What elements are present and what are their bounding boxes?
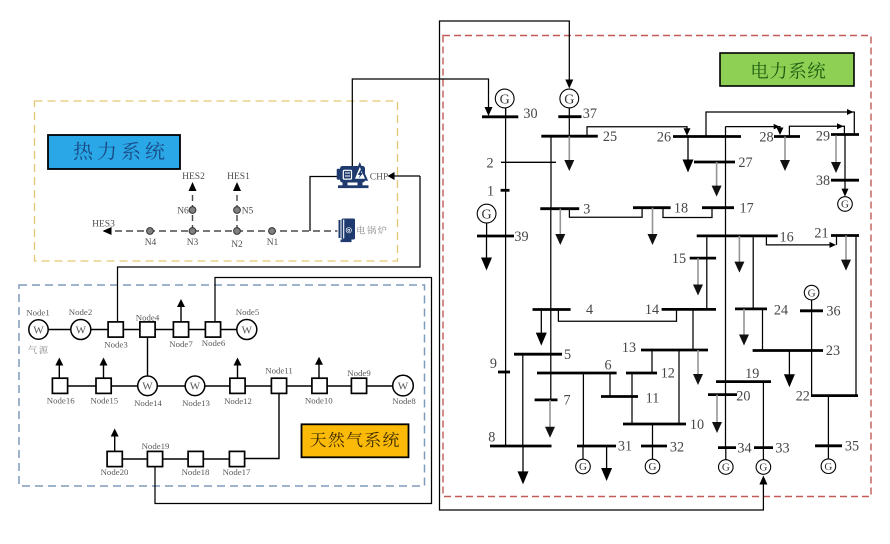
gas system title box 天然气系统	[302, 424, 409, 457]
svg-text:Node13: Node13	[182, 398, 210, 408]
gas pipe row2	[68, 385, 393, 387]
generator G33	[756, 448, 771, 475]
line 16-24	[752, 236, 754, 309]
generator G39	[477, 204, 496, 236]
thermal system dashed boundary box	[35, 101, 398, 261]
wire CHP electric output to bus30 area	[352, 79, 488, 166]
svg-text:CHP: CHP	[370, 173, 388, 183]
svg-text:13: 13	[622, 340, 636, 356]
bus 29	[831, 133, 859, 136]
Node7 arrow	[177, 299, 185, 322]
bus 23	[753, 349, 823, 352]
svg-text:Node17: Node17	[223, 467, 251, 477]
bus 8	[490, 445, 552, 448]
svg-text:34: 34	[737, 441, 751, 457]
svg-text:G: G	[759, 462, 767, 474]
svg-text:W: W	[76, 324, 87, 336]
gas feed arrow into CHP	[388, 172, 421, 180]
bus 15	[690, 257, 716, 260]
svg-text:Node10: Node10	[305, 396, 333, 406]
line 5-8	[522, 354, 524, 446]
svg-text:Node20: Node20	[101, 467, 129, 477]
heat node N3	[189, 228, 196, 235]
gas system dashed boundary box	[19, 285, 425, 486]
gas node Node6	[205, 322, 220, 337]
load arrow bus 4	[536, 310, 547, 346]
bus 26	[673, 135, 741, 138]
svg-text:30: 30	[523, 106, 537, 122]
bus 16	[697, 234, 778, 237]
bus 12	[626, 372, 657, 375]
load arrow bus 27	[712, 162, 722, 197]
wire gas Node3 to CHP (fuel supply)	[118, 176, 421, 322]
line 13-12	[651, 350, 653, 373]
svg-text:10: 10	[690, 417, 704, 433]
gas source Node8 (W)	[393, 375, 414, 396]
line 24-23	[762, 309, 764, 351]
load arrow bus 21	[841, 236, 851, 271]
svg-text:23: 23	[826, 343, 840, 359]
gas pipe Node17-Node11	[245, 393, 279, 458]
bus 4	[533, 308, 571, 311]
line chain 25-2-3	[550, 136, 552, 209]
svg-text:Node8: Node8	[392, 396, 416, 406]
svg-text:N2: N2	[231, 240, 243, 250]
bus 24	[735, 307, 767, 310]
wire fuel loop to G37 and G33 (left/top route)	[440, 21, 764, 510]
load arrow bus 13	[693, 350, 703, 385]
svg-text:N1: N1	[267, 238, 279, 248]
Node15 arrow	[100, 358, 108, 379]
svg-text:G: G	[808, 287, 816, 299]
line 3-18	[569, 208, 642, 218]
line 6-31	[582, 373, 584, 446]
line 26-28 with flow arrow	[726, 124, 784, 135]
gas node Node20	[107, 451, 122, 466]
heat network main dashed pipe N4-N3-N2-N1-boiler	[104, 230, 338, 232]
svg-text:20: 20	[736, 389, 750, 405]
svg-text:31: 31	[618, 439, 632, 455]
line 19-33	[762, 382, 764, 448]
svg-text:Node6: Node6	[202, 338, 226, 348]
svg-text:12: 12	[661, 366, 675, 382]
CHP unit icon	[337, 165, 369, 189]
svg-text:5: 5	[564, 347, 571, 363]
svg-text:HES3: HES3	[92, 220, 115, 230]
svg-text:G: G	[500, 92, 510, 107]
svg-text:2: 2	[486, 155, 493, 171]
svg-text:Node3: Node3	[104, 340, 128, 350]
svg-text:HES2: HES2	[182, 172, 205, 182]
svg-text:27: 27	[738, 155, 752, 171]
bus 7	[535, 398, 558, 401]
gas node Node4	[140, 322, 155, 337]
line 22-35	[827, 396, 829, 446]
line 18-17	[663, 208, 712, 218]
svg-text:15: 15	[672, 251, 686, 267]
svg-text:Node1: Node1	[26, 308, 49, 318]
svg-text:G: G	[841, 199, 849, 211]
gas source Node13 (W)	[185, 376, 205, 396]
svg-text:4: 4	[586, 302, 593, 318]
svg-text:Node18: Node18	[182, 467, 210, 477]
dashed riser N3 to HES2	[192, 190, 194, 231]
load arrow bus 25	[564, 136, 574, 171]
generator G37	[560, 89, 579, 117]
svg-text:8: 8	[488, 430, 495, 446]
gas node Node17	[229, 451, 244, 466]
svg-text:G: G	[482, 207, 492, 222]
svg-text:1: 1	[487, 183, 494, 199]
svg-text:19: 19	[745, 366, 759, 382]
svg-text:28: 28	[759, 130, 773, 146]
heat node N2	[234, 228, 241, 235]
wire CHP heat output to heat pipe	[310, 177, 338, 232]
svg-text:7: 7	[563, 393, 570, 409]
gas source Node2 (W)	[71, 320, 91, 340]
gas node Node12	[230, 378, 245, 393]
line 37-25	[568, 117, 570, 136]
gas source Node14 (W)	[138, 376, 158, 396]
svg-text:G: G	[579, 461, 587, 473]
bus 18	[633, 206, 671, 209]
bus 33	[754, 446, 773, 449]
load arrow bus 26	[683, 137, 694, 173]
svg-text:G: G	[722, 462, 730, 474]
load arrow bus 8	[518, 446, 529, 484]
gas pipe row1	[48, 329, 237, 331]
bus 20	[708, 393, 737, 396]
svg-text:G: G	[649, 461, 657, 473]
HES1 arrow	[233, 182, 241, 191]
heat node N6	[189, 207, 196, 214]
bus 28	[774, 135, 800, 138]
generator G31	[576, 446, 591, 474]
bus 11	[601, 395, 638, 398]
svg-text:HES1: HES1	[227, 172, 250, 182]
svg-text:G: G	[824, 461, 832, 473]
gas source Node1 (W)	[29, 320, 48, 339]
bus 25	[541, 135, 598, 138]
svg-text:16: 16	[780, 230, 794, 246]
bus 31	[577, 445, 616, 448]
svg-text:33: 33	[775, 441, 789, 457]
gas source label 气源	[28, 346, 47, 355]
load arrow bus 31	[601, 446, 612, 481]
svg-text:25: 25	[603, 129, 617, 145]
svg-text:37: 37	[583, 106, 597, 122]
svg-text:Node9: Node9	[347, 368, 371, 378]
electric boiler icon	[339, 219, 356, 243]
svg-text:26: 26	[657, 129, 671, 145]
heat node N1	[269, 228, 276, 235]
generator G35	[821, 446, 836, 474]
svg-text:Node5: Node5	[236, 307, 260, 317]
arrow into G33	[759, 476, 767, 485]
svg-text:32: 32	[670, 440, 684, 456]
gas node Node15	[96, 378, 111, 393]
bus 35	[815, 444, 842, 447]
line 13-10	[678, 350, 680, 424]
line chain 30-2-1-39-9-8	[505, 108, 507, 446]
svg-text:Node4: Node4	[136, 313, 160, 323]
bus 32	[641, 445, 667, 448]
Node20 arrow	[111, 429, 119, 452]
svg-text:Node19: Node19	[142, 441, 170, 451]
gas node Node10	[312, 378, 327, 393]
load arrow bus 39	[481, 236, 492, 271]
line 4-14	[558, 310, 676, 322]
svg-text:9: 9	[490, 356, 497, 372]
bus 3	[540, 207, 579, 210]
svg-text:29: 29	[816, 129, 830, 145]
bus 17	[702, 206, 734, 209]
load arrow bus 16	[734, 236, 744, 273]
load arrow bus 18	[648, 208, 658, 245]
bus 36	[800, 309, 823, 312]
svg-text:18: 18	[674, 201, 688, 217]
bus 19	[716, 380, 771, 383]
load arrow bus 28	[780, 137, 790, 172]
svg-text:Node14: Node14	[134, 398, 162, 408]
svg-text:Node11: Node11	[265, 366, 293, 376]
wire gas Node6 to Node19 outer pipe	[155, 278, 432, 504]
svg-text:Node16: Node16	[47, 396, 75, 406]
bus 14	[662, 308, 716, 311]
load arrow bus 15	[693, 258, 703, 295]
bus 5	[514, 353, 562, 356]
svg-text:35: 35	[845, 439, 859, 455]
line 15-14	[706, 258, 708, 309]
svg-text:21: 21	[814, 226, 828, 242]
bus 30	[482, 115, 518, 118]
svg-text:W: W	[33, 324, 44, 336]
generator G32	[645, 446, 660, 474]
arrow into G37	[565, 80, 573, 89]
Node16 arrow	[55, 358, 63, 379]
line chain 3-4-5-6-7	[550, 209, 552, 400]
generator G38	[838, 197, 853, 212]
line chain 17-16-19-20-34	[725, 208, 727, 448]
generator G34	[719, 448, 734, 475]
dashed riser N2 to HES1	[236, 190, 238, 231]
svg-text:W: W	[242, 324, 253, 336]
load arrow bus 23	[784, 351, 795, 388]
bus 1	[501, 189, 510, 192]
gas node Node7	[173, 322, 188, 337]
svg-text:W: W	[398, 381, 409, 393]
load arrow bus 24	[739, 309, 749, 346]
gas node Node16	[52, 378, 67, 393]
gas pipe Node4-Node14	[147, 337, 149, 376]
line 21-22	[855, 236, 857, 396]
svg-text:22: 22	[796, 389, 810, 405]
bus 9	[498, 371, 510, 374]
svg-text:Node12: Node12	[224, 396, 252, 406]
svg-text:N3: N3	[187, 238, 199, 248]
svg-text:36: 36	[826, 304, 840, 320]
gas source Node5 (W)	[237, 320, 257, 340]
load arrow bus 7	[545, 400, 555, 438]
svg-text:11: 11	[646, 391, 660, 407]
bus 34	[718, 446, 736, 449]
bus 39	[477, 235, 514, 238]
load arrow bus 3	[555, 209, 565, 245]
line chain 26-27-17	[725, 127, 727, 208]
generator G36	[804, 285, 819, 300]
bus 13	[641, 349, 708, 352]
bus 37	[558, 115, 581, 118]
svg-text:3: 3	[583, 202, 590, 218]
bus 27	[694, 161, 735, 164]
svg-text:38: 38	[816, 173, 830, 189]
line 25-26 with flow arrow	[587, 127, 691, 136]
generator G30	[495, 89, 514, 117]
HES3 arrow (left end of heat pipe)	[103, 227, 112, 235]
electric boiler label 电锅炉	[357, 226, 386, 235]
bus 22	[811, 394, 858, 397]
svg-text:N6: N6	[177, 207, 189, 217]
svg-text:14: 14	[645, 302, 659, 318]
line 26-29 with flow arrow	[706, 109, 854, 137]
line 6-11	[609, 373, 611, 397]
line 28-29 with flow arrow	[789, 123, 844, 136]
HES2 arrow	[189, 182, 197, 191]
svg-text:6: 6	[604, 358, 611, 374]
thermal system title box 热力系统	[48, 135, 180, 169]
bus 2	[501, 161, 556, 163]
svg-text:Node15: Node15	[90, 396, 118, 406]
svg-text:W: W	[142, 381, 153, 393]
svg-text:N4: N4	[145, 238, 157, 248]
Node10 arrow	[315, 357, 323, 378]
gas node Node3	[108, 322, 123, 337]
Node12 arrow	[234, 358, 242, 379]
gas node Node18	[188, 451, 203, 466]
power system title box 电力系统	[720, 53, 854, 86]
line 10-32	[652, 424, 654, 446]
svg-text:W: W	[190, 381, 201, 393]
line 12-11-10	[631, 373, 633, 424]
load arrow bus 20	[712, 395, 722, 433]
gas node Node9	[351, 378, 366, 393]
svg-text:N5: N5	[242, 207, 254, 217]
power system dashed boundary box	[443, 36, 871, 497]
bus 10	[623, 423, 686, 426]
bus 21	[831, 234, 859, 237]
svg-text:Node7: Node7	[169, 339, 193, 349]
heat node N4	[147, 228, 154, 235]
line 16-21 with flow arrow	[766, 236, 836, 248]
line 36-23-22	[811, 300, 813, 396]
line 29-38-G38 with arrow into G38	[842, 136, 849, 197]
svg-text:Node2: Node2	[69, 307, 92, 317]
gas node Node19	[147, 451, 162, 466]
svg-text:24: 24	[774, 303, 788, 319]
line 14-13	[692, 309, 694, 350]
arrow into bus 30	[485, 107, 493, 116]
gas node Node11	[271, 378, 286, 393]
svg-text:G: G	[564, 92, 574, 107]
gas pipe row3	[123, 458, 245, 460]
load arrow bus 29	[831, 136, 841, 174]
bus 38	[831, 179, 859, 182]
line 16-15	[706, 236, 708, 258]
svg-text:39: 39	[514, 229, 528, 245]
bus 6	[537, 372, 617, 375]
heat node N5	[234, 207, 241, 214]
svg-text:17: 17	[740, 201, 754, 217]
